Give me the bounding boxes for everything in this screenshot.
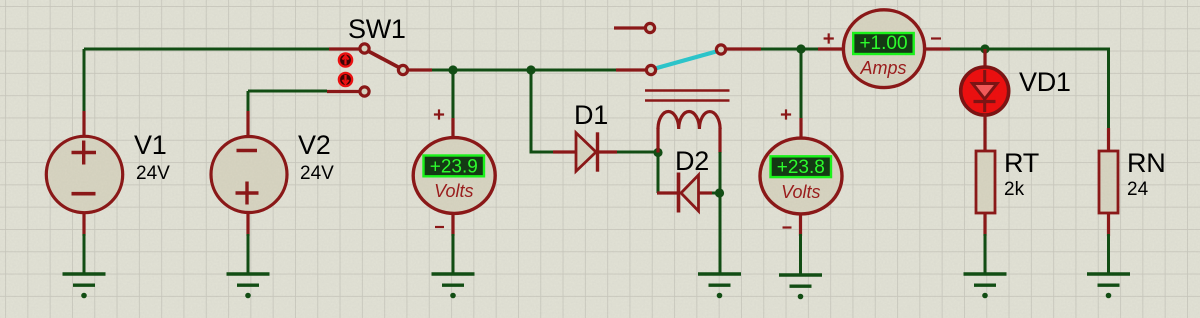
minus mark VM1 [435, 226, 444, 228]
pin SW1 top throw [329, 47, 361, 50]
pin RT bottom [983, 213, 986, 236]
diode D1 [576, 132, 598, 171]
voltage source V1 [46, 136, 122, 212]
voltmeter VM1 [413, 138, 495, 214]
wire ammeter to RN corner [950, 49, 1109, 130]
inductor core bars [645, 91, 730, 101]
ground VM1 [432, 274, 475, 298]
junction node VM2 tap [796, 44, 805, 53]
pin SW2 pole [725, 47, 761, 50]
junction node D2 right [715, 188, 724, 197]
junction node VM1 tap [448, 65, 457, 74]
plus mark VM1 [434, 109, 444, 119]
pin D2 cathode [657, 191, 677, 194]
inductor coil [658, 111, 720, 129]
pin VM1 minus [451, 212, 454, 236]
wire D1 branch [531, 70, 553, 152]
wire SW2 stub [614, 26, 645, 29]
wire VM1 branch down [452, 70, 455, 120]
pin D2 anode [699, 191, 713, 194]
pin L right [718, 128, 721, 153]
pin V1 bottom [82, 213, 85, 236]
wire L left to D2 [657, 153, 660, 194]
junction node LED tap [980, 44, 989, 53]
LED VD1 [961, 67, 1009, 115]
pin D1 anode [553, 150, 576, 153]
voltage source V2 [211, 137, 287, 213]
wire L right leg down [719, 152, 722, 274]
wire V2 rail to SW1 [248, 90, 327, 93]
pin D1 cathode [599, 150, 617, 153]
junction node L left [653, 148, 662, 157]
pin RN top [1107, 128, 1110, 152]
wire V1 top vertical [83, 49, 86, 113]
pin SW2 bottom throw [616, 68, 646, 71]
ground RT [964, 274, 1007, 298]
pin LED bottom [983, 114, 986, 152]
plus mark ammeter [824, 33, 834, 43]
ground V1 [63, 274, 106, 298]
wire top rail V1 to SW1 [84, 48, 329, 51]
wire V1 to ground [83, 234, 86, 274]
wire RN to ground [1107, 234, 1110, 274]
pin V1 top [82, 111, 85, 136]
pin ammeter plus [818, 47, 843, 50]
wire V2 to ground [247, 234, 250, 274]
switch SW2 [645, 23, 725, 74]
plus mark VM2 [781, 109, 791, 119]
pin LED top [983, 49, 986, 68]
wire SW1 pole to SW2 [432, 69, 616, 72]
ground V2 [227, 274, 270, 298]
ground VM2 [779, 275, 822, 299]
pin RN bottom [1107, 213, 1110, 236]
pin VM2 plus [799, 118, 802, 137]
pin V2 bottom [246, 212, 249, 236]
wire D1 to L node [617, 151, 658, 154]
junction node D1 tap [526, 65, 535, 74]
resistor RT [976, 151, 995, 213]
ammeter AM1 [843, 10, 924, 88]
wire SW2 to ammeter [761, 48, 820, 51]
wire D2 to right leg [712, 192, 720, 195]
pin V2 top [246, 111, 249, 137]
pin VM1 plus [451, 118, 454, 138]
wire VM1 to ground [452, 234, 455, 274]
voltmeter VM2 [760, 138, 842, 214]
wire VM2 branch down [800, 49, 803, 120]
switch SW1 [360, 44, 408, 96]
switch SW1 button down [338, 72, 354, 88]
ground D2 [698, 274, 741, 298]
pin SW1 bottom throw [327, 90, 361, 93]
pin VM2 minus [799, 213, 802, 236]
diode D2 [679, 173, 699, 213]
wire V2 top vertical [247, 91, 250, 113]
resistor RN [1099, 151, 1118, 213]
pin L left [656, 128, 659, 153]
minus mark ammeter [931, 37, 941, 39]
pin SW1 pole [407, 68, 432, 71]
pin ammeter minus [925, 47, 950, 50]
ground RN [1087, 274, 1130, 298]
wire VM2 to ground [799, 234, 802, 275]
minus mark VM2 [783, 226, 792, 228]
wire RT to ground [984, 234, 987, 274]
switch SW1 button up [338, 52, 354, 68]
